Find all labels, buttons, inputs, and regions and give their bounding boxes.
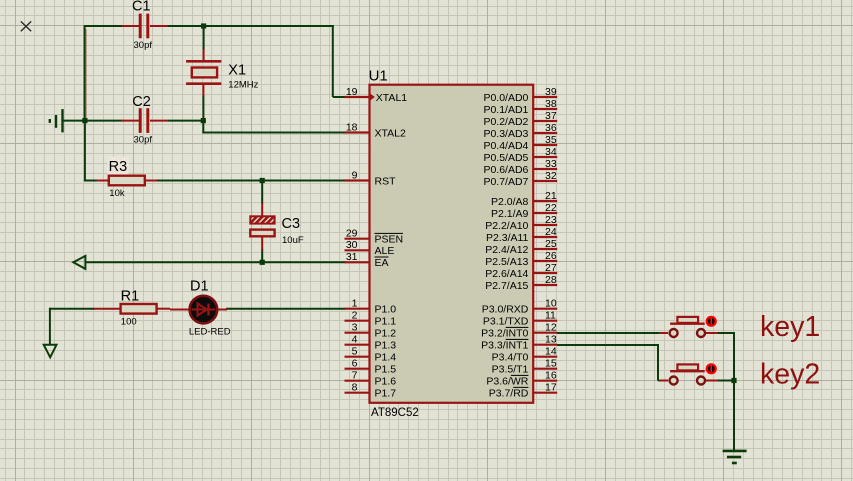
svg-text:9: 9 xyxy=(352,169,358,181)
svg-text:ALE: ALE xyxy=(375,245,395,257)
svg-text:18: 18 xyxy=(346,121,358,133)
capacitor C1 xyxy=(122,14,168,39)
svg-text:C1: C1 xyxy=(132,0,151,15)
svg-text:LED-RED: LED-RED xyxy=(189,327,231,338)
pin 16 P3.6/WR xyxy=(486,370,557,388)
wire INT0 to key1 xyxy=(557,332,659,334)
svg-text:23: 23 xyxy=(545,214,557,226)
pin 32 P0.7/AD7 xyxy=(483,170,557,188)
svg-text:P2.7/A15: P2.7/A15 xyxy=(485,280,528,292)
svg-text:P2.2/A10: P2.2/A10 xyxy=(485,220,528,232)
junction RST / C3 top xyxy=(260,178,265,183)
svg-text:35: 35 xyxy=(545,134,557,146)
svg-text:P0.0/AD0: P0.0/AD0 xyxy=(483,92,528,104)
svg-text:22: 22 xyxy=(545,202,557,214)
svg-text:P3.4/T0: P3.4/T0 xyxy=(492,352,529,364)
wire down to XTAL1 xyxy=(332,25,334,97)
svg-text:P3.5/T1: P3.5/T1 xyxy=(492,364,529,376)
terminal arrow (EA net, pointing left) xyxy=(73,256,85,269)
svg-text:14: 14 xyxy=(545,346,557,358)
wire X1 top stub upper xyxy=(203,26,205,50)
LED D1 xyxy=(170,296,227,324)
svg-text:17: 17 xyxy=(545,382,557,394)
origin X marker xyxy=(21,21,31,31)
pin 2 P1.1 xyxy=(345,310,397,328)
svg-text:RST: RST xyxy=(375,175,397,187)
svg-text:28: 28 xyxy=(545,274,557,286)
svg-text:P2.6/A14: P2.6/A14 xyxy=(485,268,528,280)
svg-text:36: 36 xyxy=(545,122,557,134)
junction EA / C3 bottom xyxy=(260,260,265,265)
wire P1.0 row left xyxy=(50,308,95,310)
svg-text:33: 33 xyxy=(545,158,557,170)
svg-text:R1: R1 xyxy=(121,289,140,305)
svg-text:P1.4: P1.4 xyxy=(375,352,397,364)
pin 9 RST xyxy=(345,169,397,187)
svg-text:key2: key2 xyxy=(760,359,820,391)
svg-text:EA: EA xyxy=(375,257,389,269)
svg-text:10: 10 xyxy=(545,298,557,310)
svg-text:P3.6/WR: P3.6/WR xyxy=(486,376,528,388)
svg-text:P3.0/RXD: P3.0/RXD xyxy=(482,304,529,316)
svg-text:P1.7: P1.7 xyxy=(375,388,397,400)
pin 5 P1.4 xyxy=(345,346,397,364)
svg-text:P1.3: P1.3 xyxy=(375,340,397,352)
pin 24 P2.3/A11 xyxy=(486,226,557,244)
pin 38 P0.1/AD1 xyxy=(483,98,557,116)
wire C1 left to corner xyxy=(85,25,122,27)
pin 37 P0.2/AD2 xyxy=(483,110,557,128)
pin 22 P2.1/A9 xyxy=(491,202,557,220)
pin 17 P3.7/RD xyxy=(489,382,557,400)
svg-text:37: 37 xyxy=(545,110,557,122)
svg-text:C2: C2 xyxy=(132,94,151,110)
wire corner to key2 lead xyxy=(658,380,662,382)
pin 11 P3.1/TXD xyxy=(483,310,557,328)
wire LED to P1.0 stub xyxy=(226,308,346,310)
svg-text:P1.2: P1.2 xyxy=(375,328,397,340)
pin 34 P0.5/AD5 xyxy=(483,146,557,164)
svg-text:12: 12 xyxy=(545,322,557,334)
ground (bottom right) xyxy=(723,451,747,463)
svg-text:8: 8 xyxy=(352,382,358,394)
pin 14 P3.4/T0 xyxy=(492,346,558,364)
label highlight box R3 xyxy=(108,157,129,176)
svg-text:P0.3/AD3: P0.3/AD3 xyxy=(483,128,528,140)
pin 1 P1.0 xyxy=(345,298,397,316)
svg-text:P3.3/INT1: P3.3/INT1 xyxy=(481,340,528,352)
wire into XTAL1 stub xyxy=(333,96,346,98)
pin 35 P0.4/AD4 xyxy=(483,134,557,152)
XTAL1 pin clock arrow xyxy=(370,93,375,101)
pin 19 XTAL1 xyxy=(345,86,408,104)
resistor R1 xyxy=(94,304,170,314)
svg-text:P0.1/AD1: P0.1/AD1 xyxy=(483,104,528,116)
wire X1 bottom to C2 net xyxy=(202,95,204,122)
capacitor C2 xyxy=(121,108,168,133)
junction X1 top / C1 net xyxy=(201,23,206,28)
junction XTAL2 net xyxy=(201,118,206,123)
svg-text:P1.1: P1.1 xyxy=(375,316,397,328)
svg-text:26: 26 xyxy=(545,250,557,262)
svg-text:P2.5/A13: P2.5/A13 xyxy=(485,256,528,268)
push button key2 switch xyxy=(659,363,718,384)
terminal arrow (ground below R1, pointing down) xyxy=(44,345,57,358)
svg-text:P0.6/AD6: P0.6/AD6 xyxy=(483,164,528,176)
svg-text:100: 100 xyxy=(121,317,137,328)
svg-text:34: 34 xyxy=(545,146,557,158)
svg-text:30: 30 xyxy=(346,239,358,251)
wire key1 out xyxy=(718,332,736,334)
svg-text:6: 6 xyxy=(352,358,358,370)
svg-text:32: 32 xyxy=(545,170,557,182)
wire down to key2 row xyxy=(657,344,659,381)
svg-text:U1: U1 xyxy=(369,67,388,84)
wire C2 right to junction xyxy=(168,120,204,122)
svg-text:D1: D1 xyxy=(190,278,209,294)
svg-text:5: 5 xyxy=(352,346,358,358)
svg-text:3: 3 xyxy=(352,322,358,334)
pin 6 P1.5 xyxy=(345,358,397,376)
svg-text:P2.0/A8: P2.0/A8 xyxy=(491,196,529,208)
svg-text:P0.7/AD7: P0.7/AD7 xyxy=(483,176,528,188)
wire to R3 left lead xyxy=(85,180,98,182)
pin 13 P3.3/INT1 xyxy=(481,334,557,352)
pin 10 P3.0/RXD xyxy=(482,298,557,316)
svg-text:P2.1/A9: P2.1/A9 xyxy=(491,208,529,220)
wire down to ground xyxy=(733,381,735,451)
svg-text:P3.7/RD: P3.7/RD xyxy=(489,388,529,400)
wire INT1 row xyxy=(557,344,659,346)
wire vertical left x85 xyxy=(84,25,86,122)
pin 29 PSEN# xyxy=(345,228,404,246)
svg-text:11: 11 xyxy=(545,310,556,322)
svg-text:2: 2 xyxy=(352,310,358,322)
IC U1 AT89C52 body xyxy=(370,85,534,403)
crystal X1 xyxy=(186,49,221,96)
pin 36 P0.3/AD3 xyxy=(483,122,557,140)
svg-text:P1.5: P1.5 xyxy=(375,364,397,376)
wire key1 down to junction xyxy=(733,333,735,382)
svg-text:19: 19 xyxy=(346,86,358,98)
svg-text:XTAL1: XTAL1 xyxy=(376,92,407,104)
wire ground to junction to C2 xyxy=(63,120,122,122)
pin 3 P1.2 xyxy=(345,322,397,340)
svg-text:15: 15 xyxy=(545,358,557,370)
svg-text:P2.4/A12: P2.4/A12 xyxy=(485,244,528,256)
pin 23 P2.2/A10 xyxy=(485,214,557,232)
svg-text:P3.2/INT0: P3.2/INT0 xyxy=(481,328,528,340)
svg-text:29: 29 xyxy=(346,228,358,240)
wire down to arrow ground xyxy=(49,308,51,345)
svg-text:P0.5/AD5: P0.5/AD5 xyxy=(483,152,528,164)
svg-text:24: 24 xyxy=(545,226,557,238)
svg-text:16: 16 xyxy=(545,370,557,382)
wire EA row xyxy=(85,261,345,263)
svg-text:XTAL2: XTAL2 xyxy=(375,127,406,139)
pin 33 P0.6/AD6 xyxy=(483,158,557,176)
wire C3 bottom to EA row xyxy=(261,249,263,263)
svg-text:P0.2/AD2: P0.2/AD2 xyxy=(483,116,528,128)
pin 12 P3.2/INT0 xyxy=(481,322,557,340)
pin 31 EA# xyxy=(345,251,389,269)
pin 21 P2.0/A8 xyxy=(491,190,557,208)
svg-text:AT89C52: AT89C52 xyxy=(371,407,419,419)
svg-text:12MHz: 12MHz xyxy=(228,79,258,90)
pin 4 P1.3 xyxy=(345,334,397,352)
pin 18 XTAL2 xyxy=(345,121,406,139)
pin 15 P3.5/T1 xyxy=(492,358,558,376)
wire to XTAL2 stub xyxy=(202,132,345,134)
junction key outputs xyxy=(731,378,736,383)
pin 28 P2.7/A15 xyxy=(485,274,557,292)
svg-text:30pf: 30pf xyxy=(134,134,153,145)
svg-text:P1.0: P1.0 xyxy=(375,304,397,316)
svg-text:P0.4/AD4: P0.4/AD4 xyxy=(483,140,528,152)
pin 27 P2.6/A14 xyxy=(485,262,557,280)
pin 30 ALE xyxy=(345,239,395,257)
svg-text:P3.1/TXD: P3.1/TXD xyxy=(483,316,529,328)
svg-text:P2.3/A11: P2.3/A11 xyxy=(486,232,529,244)
wire C1 right to XTAL1 corner xyxy=(168,25,334,27)
wire key2 out xyxy=(718,380,736,382)
svg-text:30pf: 30pf xyxy=(134,40,153,51)
svg-text:25: 25 xyxy=(545,238,557,250)
svg-text:C3: C3 xyxy=(282,216,301,232)
junction ground/C2 net xyxy=(82,118,87,123)
wire down to XTAL2 row xyxy=(202,121,204,133)
push button key1 switch xyxy=(659,316,718,337)
svg-text:10k: 10k xyxy=(109,188,125,199)
wire overlap tint xyxy=(85,29,87,119)
resistor R3 xyxy=(97,176,158,186)
ground (left, at C2 net) xyxy=(50,109,63,132)
wire R3 to RST stub xyxy=(156,180,346,182)
wire down to C3 xyxy=(261,181,263,205)
svg-text:key1: key1 xyxy=(760,311,820,343)
pin 26 P2.5/A13 xyxy=(485,250,557,268)
svg-text:7: 7 xyxy=(352,370,358,382)
svg-text:P1.6: P1.6 xyxy=(375,376,397,388)
pin 25 P2.4/A12 xyxy=(485,238,557,256)
pin 8 P1.7 xyxy=(345,382,397,400)
svg-text:39: 39 xyxy=(545,86,557,98)
svg-text:PSEN: PSEN xyxy=(375,234,404,246)
svg-text:21: 21 xyxy=(545,190,557,202)
svg-text:27: 27 xyxy=(545,262,557,274)
svg-text:R3: R3 xyxy=(109,159,128,175)
wire left vertical to RST row xyxy=(84,121,86,182)
svg-text:4: 4 xyxy=(352,334,358,346)
svg-text:13: 13 xyxy=(545,334,557,346)
svg-text:X1: X1 xyxy=(228,63,246,79)
pin 39 P0.0/AD0 xyxy=(483,86,557,104)
pin 7 P1.6 xyxy=(345,370,397,388)
svg-text:38: 38 xyxy=(545,98,557,110)
svg-text:31: 31 xyxy=(346,251,358,263)
svg-text:1: 1 xyxy=(352,298,358,310)
svg-text:10uF: 10uF xyxy=(282,235,304,246)
